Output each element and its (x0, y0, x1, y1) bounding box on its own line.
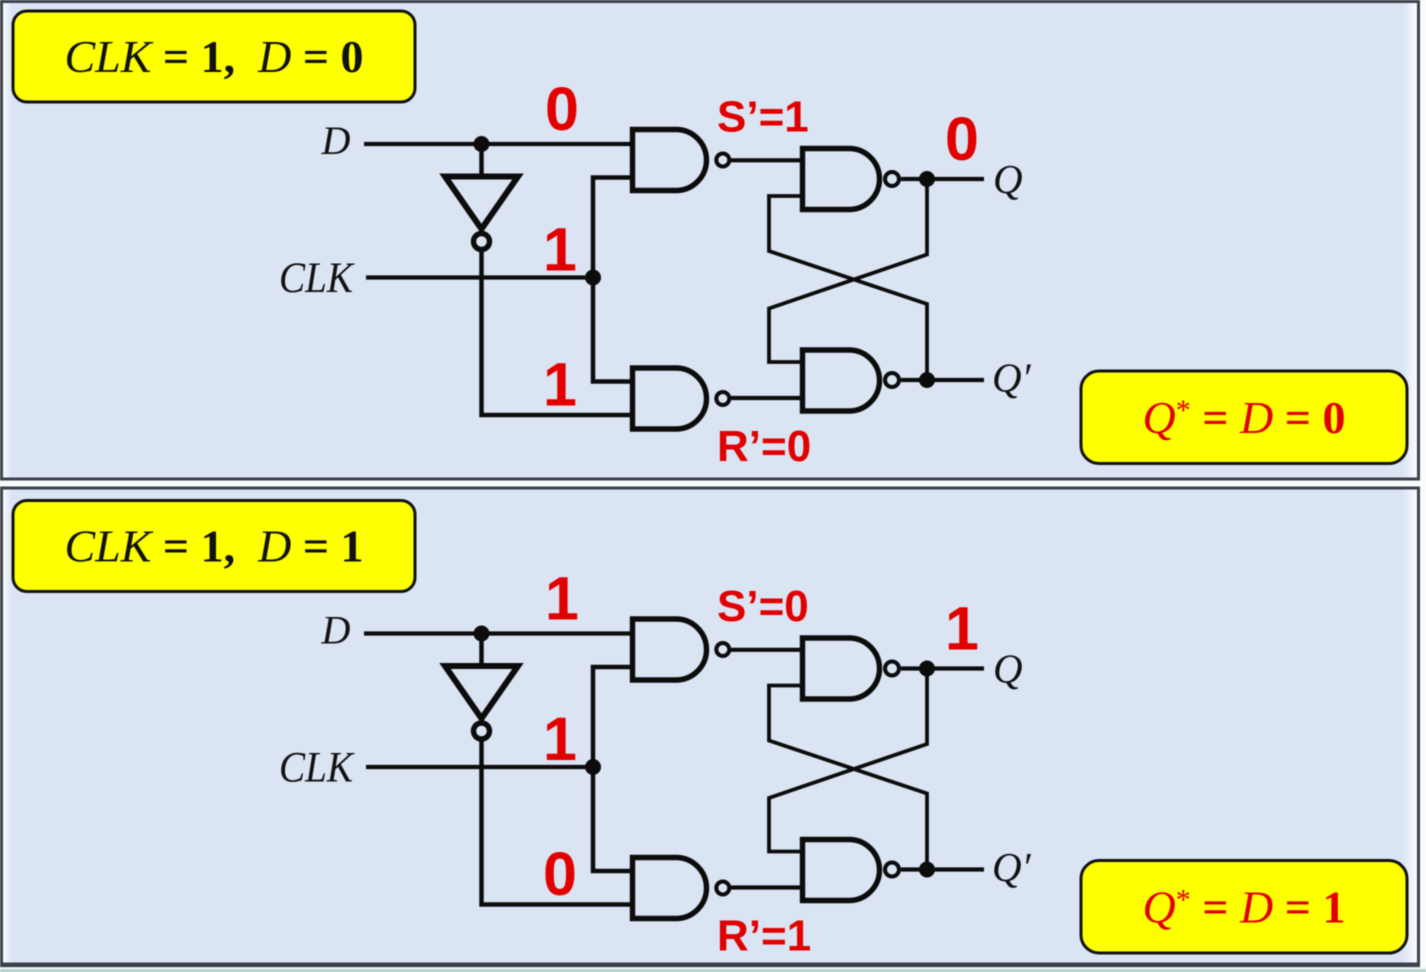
panel 1 inner white edge left (3, 3, 12, 478)
node D input wire (panel 1) (364, 142, 630, 146)
svg-text:0: 0 (543, 840, 577, 908)
NAND gate A1 (S gate) body (633, 130, 707, 191)
node CLK input wire (panel 2) (366, 765, 593, 769)
panel 1 background (2, 2, 1419, 480)
NAND gate B1 (R gate) body (633, 368, 707, 429)
svg-text:D: D (321, 118, 351, 163)
panel 2 background (2, 488, 1419, 964)
svg-text:1: 1 (543, 705, 577, 773)
node Q junction dot (panel 1) (919, 171, 935, 187)
NAND gate C1 output bubble (885, 172, 899, 186)
panel 2 inner white edge right (1402, 490, 1417, 963)
NAND gate B2 output bubble (716, 882, 729, 895)
wire NAND A1 output to latch gate C1 (731, 158, 803, 162)
wire Q output (panel 2) (901, 666, 984, 670)
svg-text:1: 1 (543, 216, 577, 284)
node Qbar junction dot (panel 2) (919, 862, 935, 878)
wire CLK up to NAND A2 lower input (593, 667, 632, 767)
bottom light strip (0, 967, 1426, 970)
wire Qbar output (panel 2) (901, 867, 984, 871)
node Qbar junction dot (panel 1) (919, 372, 935, 388)
inverter U2 output bubble (474, 723, 490, 739)
panel 2 bottom border extra (0, 965, 1420, 968)
title box panel 2: CLK = 1, D = 1 (13, 501, 415, 592)
wire CLK up to NAND A1 lower input (593, 178, 632, 278)
node D junction dot (panel 2) (474, 626, 490, 642)
NAND gate C2 output bubble (885, 662, 899, 676)
NAND gate D1 output bubble (885, 373, 899, 387)
svg-text:R’=1: R’=1 (717, 912, 811, 961)
svg-text:1: 1 (945, 595, 979, 663)
bottom teal strip (0, 970, 1426, 972)
svg-text:D: D (321, 608, 351, 653)
wire feedback from Qbar up across to NAND C2 lower input (769, 686, 927, 870)
wire NAND A2 output to latch gate C2 (731, 648, 803, 652)
NAND gate A1 output bubble (716, 154, 729, 167)
wire feedback from Qbar up across to NAND C1 lower input (769, 196, 927, 380)
svg-text:Q* = D = 1: Q* = D = 1 (1143, 882, 1346, 933)
node Q junction dot (panel 2) (919, 661, 935, 677)
wire Qbar output (panel 1) (901, 378, 984, 382)
wire CLK down to NAND B2 upper input (593, 767, 632, 871)
wire Q output (panel 1) (901, 177, 984, 181)
NAND gate D2 output bubble (885, 863, 899, 877)
svg-text:CLK = 1, D = 1: CLK = 1, D = 1 (64, 521, 363, 572)
svg-text:R’=0: R’=0 (717, 422, 811, 471)
NAND gate D1 (latch bottom) body (803, 350, 880, 411)
svg-text:Q: Q (993, 156, 1023, 202)
wire feedback from Q down across to NAND D1 upper input (769, 179, 927, 362)
node CLK junction dot (panel 2) (585, 759, 601, 775)
inverter U1 triangle (445, 177, 518, 230)
svg-text:CLK = 1, D = 0: CLK = 1, D = 0 (64, 31, 363, 82)
result box panel 2: Q* = D = 1 (1081, 861, 1407, 954)
svg-text:CLK: CLK (279, 255, 355, 302)
inverter U2 triangle (445, 666, 518, 719)
panel 1 inner white edge right (1402, 3, 1417, 478)
node CLK junction dot (panel 1) (585, 270, 601, 286)
NAND gate C2 (latch top) body (803, 638, 880, 699)
NAND gate A2 (S gate) body (633, 619, 707, 680)
svg-text:1: 1 (545, 565, 579, 633)
panel 2 inner white edge left (3, 490, 12, 963)
wire from D node into inverter (panel 1) (479, 144, 484, 176)
svg-text:Q′: Q′ (992, 844, 1032, 890)
NAND gate B2 (R gate) body (633, 858, 707, 919)
svg-text:S’=0: S’=0 (717, 582, 809, 631)
svg-text:0: 0 (545, 75, 579, 143)
node D input wire (panel 2) (364, 631, 630, 635)
NAND gate A2 output bubble (716, 643, 729, 656)
svg-text:Q′: Q′ (992, 355, 1032, 401)
NAND gate C1 (latch top) body (803, 149, 880, 210)
svg-text:1: 1 (543, 351, 577, 419)
svg-text:CLK: CLK (279, 745, 355, 792)
svg-text:0: 0 (945, 105, 979, 173)
wire NAND B2 output to latch gate D2 (731, 885, 803, 889)
NAND gate B1 output bubble (716, 392, 729, 405)
svg-text:Q* = D = 0: Q* = D = 0 (1143, 392, 1346, 443)
wire from D node into inverter (panel 2) (479, 634, 484, 666)
svg-text:S’=1: S’=1 (717, 93, 809, 142)
wire CLK down to NAND B1 upper input (593, 278, 632, 382)
node CLK input wire (panel 1) (366, 275, 593, 279)
title box panel 1: CLK = 1, D = 0 (13, 11, 415, 102)
wire inverter output down and right to NAND B1 lower input (482, 252, 633, 415)
result box panel 1: Q* = D = 0 (1081, 371, 1407, 464)
wire inverter output down and right to NAND B2 lower input (482, 742, 633, 905)
svg-text:Q: Q (993, 646, 1023, 692)
wire feedback from Q down across to NAND D2 upper input (769, 669, 927, 852)
wire NAND B1 output to latch gate D1 (731, 396, 803, 400)
inverter U1 output bubble (474, 234, 490, 250)
NAND gate D2 (latch bottom) body (803, 840, 880, 901)
node D junction dot (panel 1) (474, 136, 490, 152)
